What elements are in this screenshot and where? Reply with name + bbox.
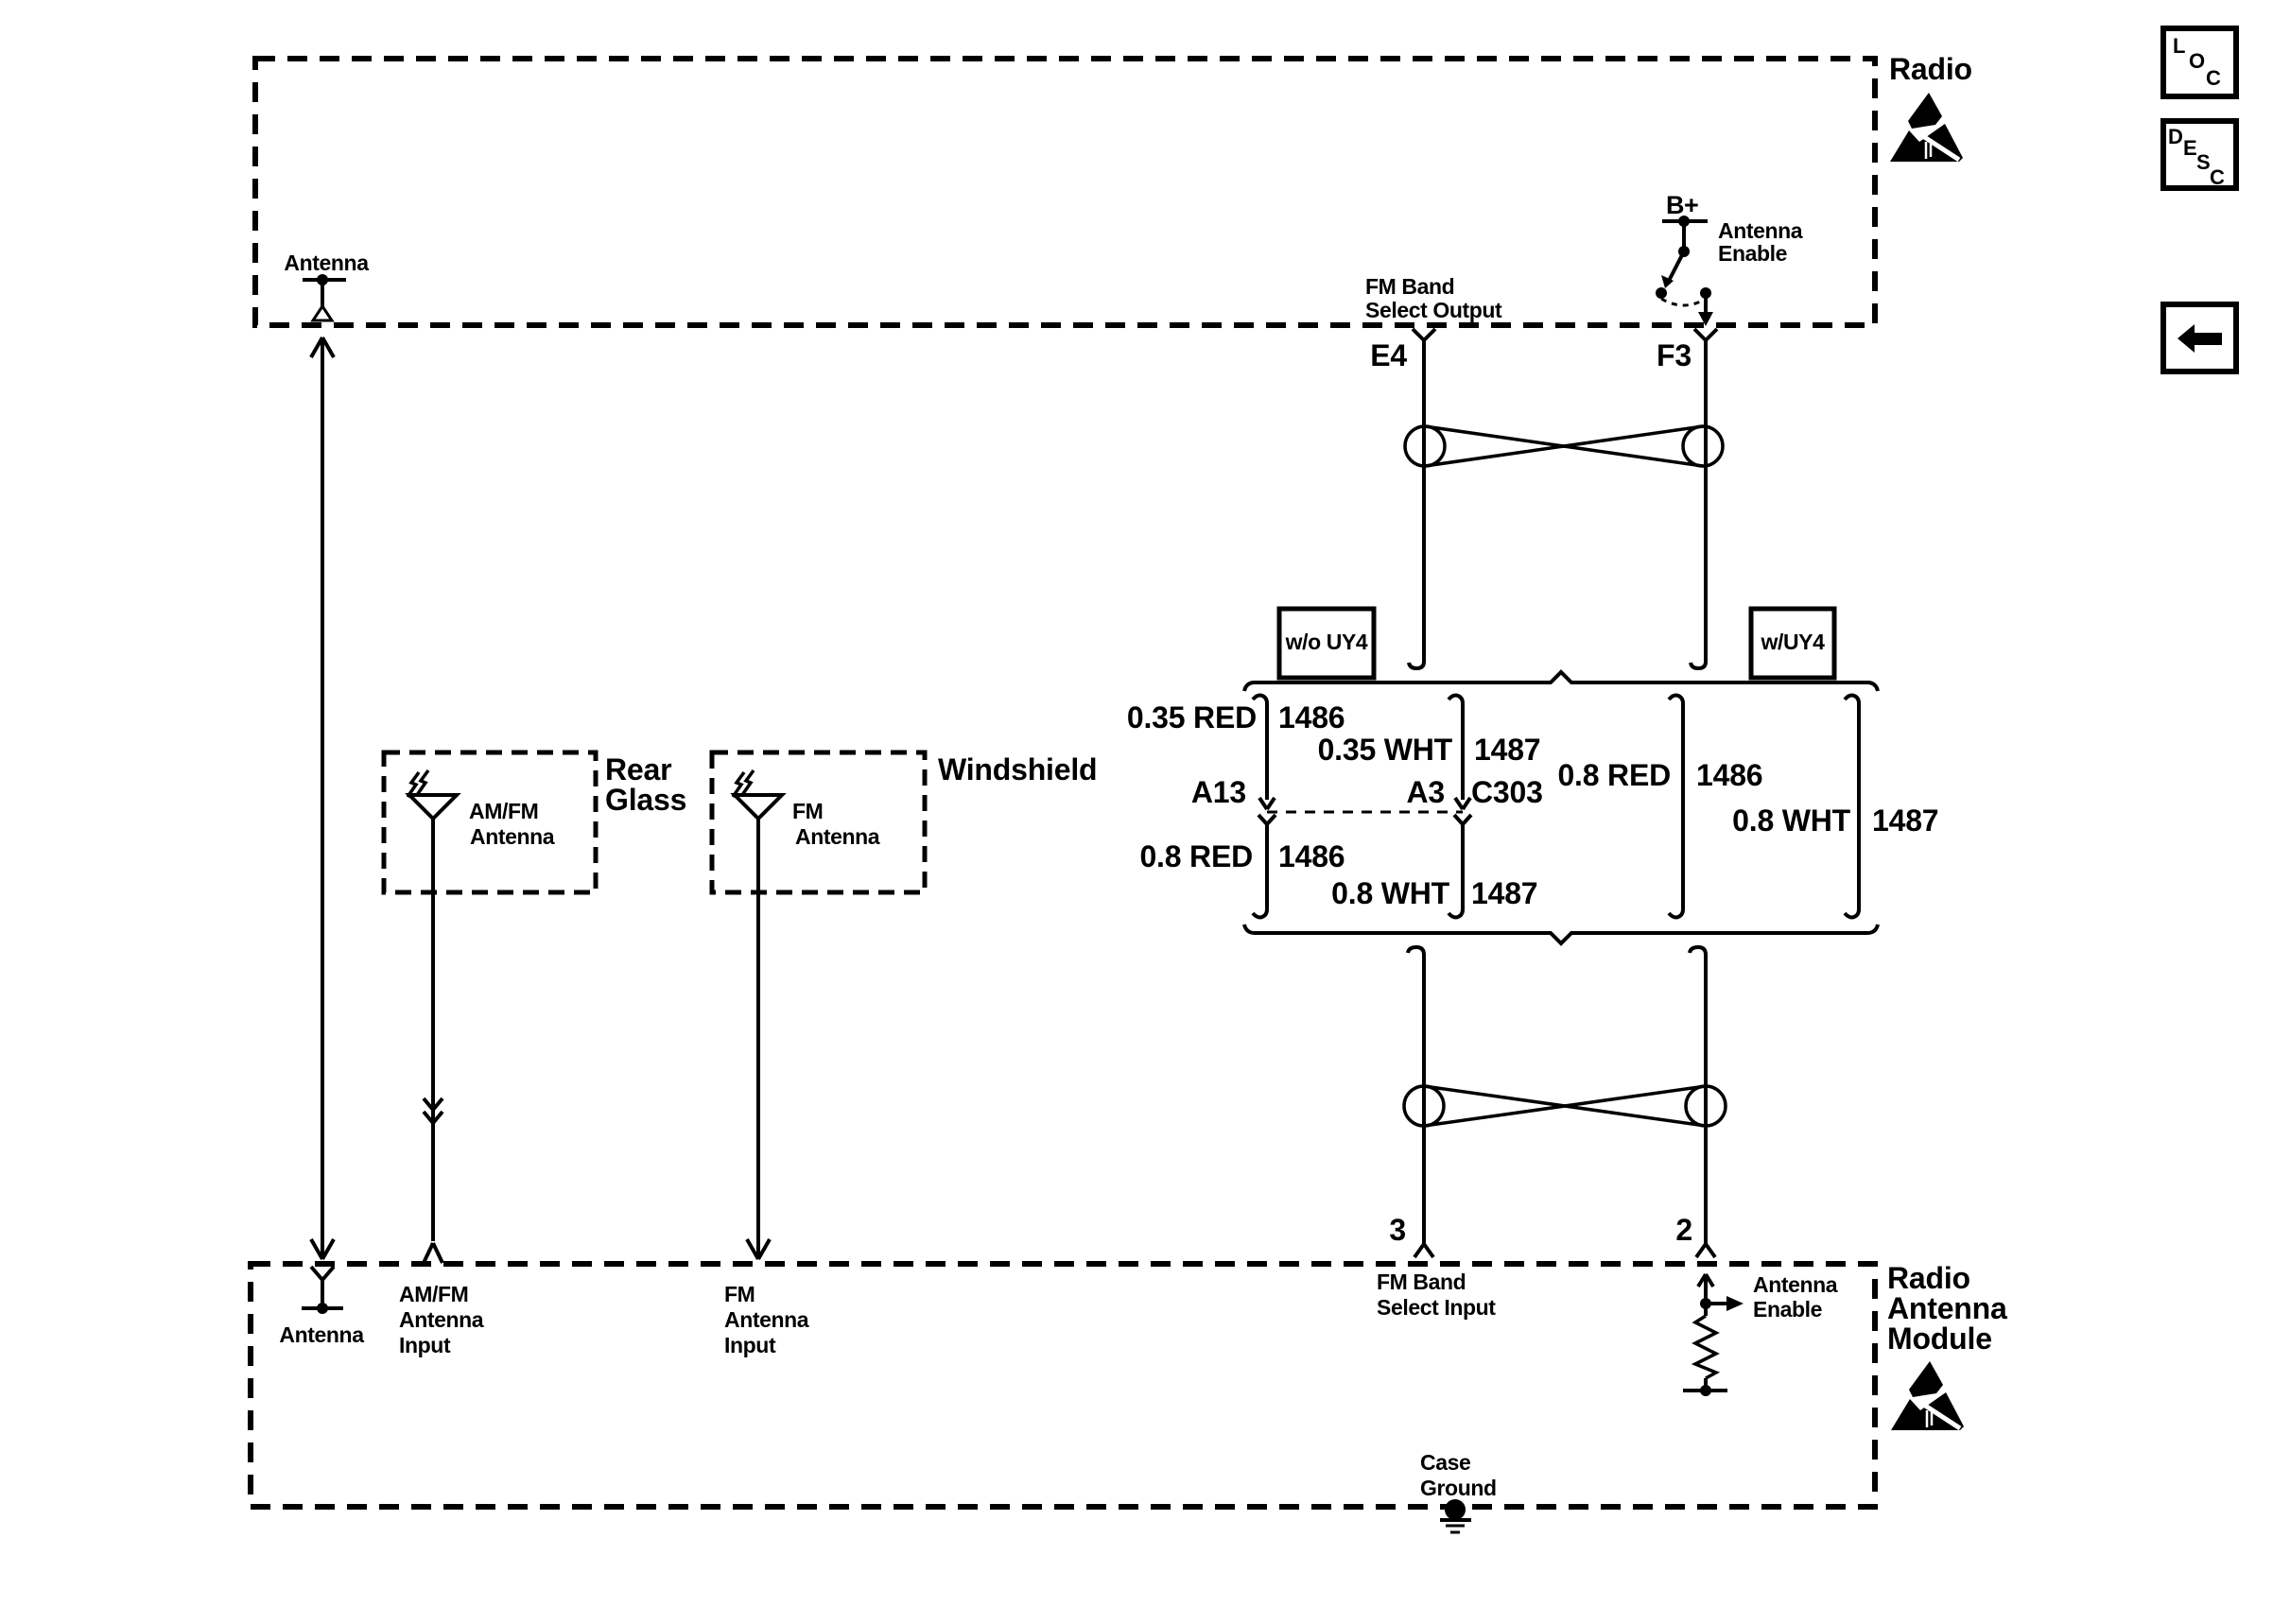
svg-text:Windshield: Windshield	[938, 752, 1097, 786]
svg-text:Input: Input	[724, 1333, 776, 1357]
w/o UY4 box	[1279, 609, 1374, 678]
pin E4 connector	[1413, 329, 1435, 340]
svg-text:0.8 RED: 0.8 RED	[1557, 758, 1671, 792]
Radio Antenna Module box (dashed outline)	[251, 1264, 1875, 1507]
FM antenna element	[733, 770, 782, 819]
svg-text:Select Output: Select Output	[1365, 298, 1502, 322]
svg-text:D: D	[2168, 125, 2183, 148]
wire bracket segment 3 (w/UY4, circuit 1486)	[1669, 696, 1683, 918]
wire F3 down to harness (with curl end)	[1691, 340, 1706, 668]
wire E4 down to harness (with curl end)	[1409, 340, 1424, 668]
svg-text:Antenna: Antenna	[399, 1307, 484, 1332]
switch throw arc (dashed)	[1661, 299, 1706, 305]
svg-text:Antenna: Antenna	[1718, 218, 1803, 243]
w/UY4 box	[1751, 609, 1834, 678]
svg-text:2: 2	[1675, 1213, 1692, 1247]
AM/FM antenna lead wire	[424, 819, 442, 1241]
FM antenna lead wire	[747, 819, 770, 1259]
svg-text:E: E	[2183, 136, 2197, 160]
twisted pair (upper)	[1405, 426, 1723, 466]
svg-text:O: O	[2189, 49, 2205, 73]
svg-text:Antenna: Antenna	[284, 251, 369, 275]
svg-text:S: S	[2196, 150, 2211, 174]
antenna enable input (module)	[1698, 1274, 1744, 1311]
wire bracket segment 2 lower half	[1449, 815, 1471, 918]
ESD symbol (Radio Antenna Module)	[1891, 1361, 1964, 1430]
pin 3 connector	[1414, 1244, 1433, 1257]
B+ terminal bar	[1662, 216, 1708, 227]
ESD symbol (Radio)	[1890, 93, 1963, 162]
svg-text:AM/FM: AM/FM	[469, 799, 538, 823]
svg-text:1487: 1487	[1471, 876, 1537, 910]
svg-text:Ground: Ground	[1420, 1476, 1497, 1500]
pin 2 connector	[1696, 1244, 1715, 1257]
svg-text:L: L	[2173, 34, 2185, 58]
LOC box	[2163, 28, 2236, 96]
wire bracket segment 1 (w/o UY4, circuit 1486) upper half	[1253, 696, 1275, 810]
svg-text:w/UY4: w/UY4	[1760, 630, 1825, 654]
svg-text:0.35 WHT: 0.35 WHT	[1318, 733, 1453, 767]
svg-text:F3: F3	[1657, 338, 1692, 372]
svg-text:w/o UY4: w/o UY4	[1285, 630, 1368, 654]
svg-text:C: C	[2210, 165, 2225, 189]
internal ground node of resistor	[1683, 1385, 1727, 1396]
harness brace (top)	[1244, 672, 1878, 691]
AM/FM antenna input pin	[424, 1243, 442, 1263]
svg-text:0.8 WHT: 0.8 WHT	[1732, 803, 1850, 838]
case ground symbol	[1440, 1499, 1471, 1532]
svg-text:Glass: Glass	[605, 783, 686, 817]
svg-text:B+: B+	[1666, 191, 1698, 219]
svg-text:1486: 1486	[1278, 839, 1345, 873]
svg-text:FM Band: FM Band	[1377, 1270, 1466, 1294]
svg-text:0.8 RED: 0.8 RED	[1139, 839, 1253, 873]
svg-text:Select Input: Select Input	[1377, 1295, 1496, 1320]
svg-text:Case: Case	[1420, 1450, 1470, 1475]
svg-text:FM: FM	[724, 1282, 755, 1306]
Radio box (dashed outline)	[255, 59, 1875, 325]
svg-text:C303: C303	[1471, 775, 1543, 809]
svg-text:Enable: Enable	[1718, 241, 1787, 266]
svg-text:Antenna: Antenna	[724, 1307, 809, 1332]
back arrow box	[2163, 304, 2236, 371]
wire harness to pin 3 (with curl end)	[1408, 947, 1424, 1244]
AM/FM antenna element	[408, 770, 457, 819]
svg-text:1486: 1486	[1278, 700, 1345, 734]
svg-text:Antenna: Antenna	[279, 1322, 364, 1347]
svg-text:0.8 WHT: 0.8 WHT	[1331, 876, 1449, 910]
twisted pair (lower)	[1404, 1086, 1726, 1126]
svg-text:C: C	[2206, 66, 2221, 90]
wire bracket segment 2 (w/o UY4, circuit 1487) upper half	[1449, 696, 1470, 810]
main antenna lead wire (Radio to module)	[311, 337, 334, 1259]
Windshield box (dashed)	[712, 752, 925, 892]
svg-text:AM/FM: AM/FM	[399, 1282, 468, 1306]
connector C303 (dashed line)	[1267, 811, 1463, 814]
svg-text:1487: 1487	[1872, 803, 1938, 838]
svg-text:FM Band: FM Band	[1365, 274, 1454, 299]
svg-text:0.35 RED: 0.35 RED	[1127, 700, 1257, 734]
pin F3 connector	[1694, 329, 1717, 340]
svg-text:Module: Module	[1887, 1322, 1992, 1356]
wire harness to pin 2 (with curl end)	[1690, 947, 1706, 1244]
svg-text:Antenna: Antenna	[1887, 1291, 2007, 1325]
svg-text:1487: 1487	[1474, 733, 1540, 767]
DESC box	[2163, 121, 2236, 189]
Rear Glass box (dashed)	[384, 752, 596, 892]
svg-text:Radio: Radio	[1887, 1261, 1970, 1295]
svg-text:Antenna: Antenna	[1753, 1272, 1838, 1297]
antenna terminal symbol (Radio)	[303, 274, 346, 320]
svg-text:Antenna: Antenna	[470, 824, 555, 849]
svg-text:Input: Input	[399, 1333, 451, 1357]
svg-text:FM: FM	[792, 799, 823, 823]
svg-text:A13: A13	[1191, 775, 1246, 809]
svg-text:Radio: Radio	[1889, 52, 1972, 86]
svg-text:A3: A3	[1406, 775, 1445, 809]
resistor (antenna enable pull-down)	[1695, 1304, 1716, 1391]
antenna enable switch	[1656, 221, 1713, 326]
svg-text:Rear: Rear	[605, 752, 671, 786]
svg-text:E4: E4	[1370, 338, 1407, 372]
wire bracket segment 4 (w/UY4, circuit 1487)	[1845, 696, 1859, 918]
svg-text:1486: 1486	[1696, 758, 1762, 792]
svg-text:Enable: Enable	[1753, 1297, 1822, 1322]
wire bracket segment 1 lower half	[1253, 815, 1275, 918]
node: antenna input terminal (module)	[302, 1267, 343, 1314]
harness brace (bottom)	[1244, 924, 1878, 943]
wire switch to F3 with arrow	[1704, 293, 1708, 314]
svg-text:3: 3	[1389, 1213, 1406, 1247]
svg-text:Antenna: Antenna	[795, 824, 880, 849]
